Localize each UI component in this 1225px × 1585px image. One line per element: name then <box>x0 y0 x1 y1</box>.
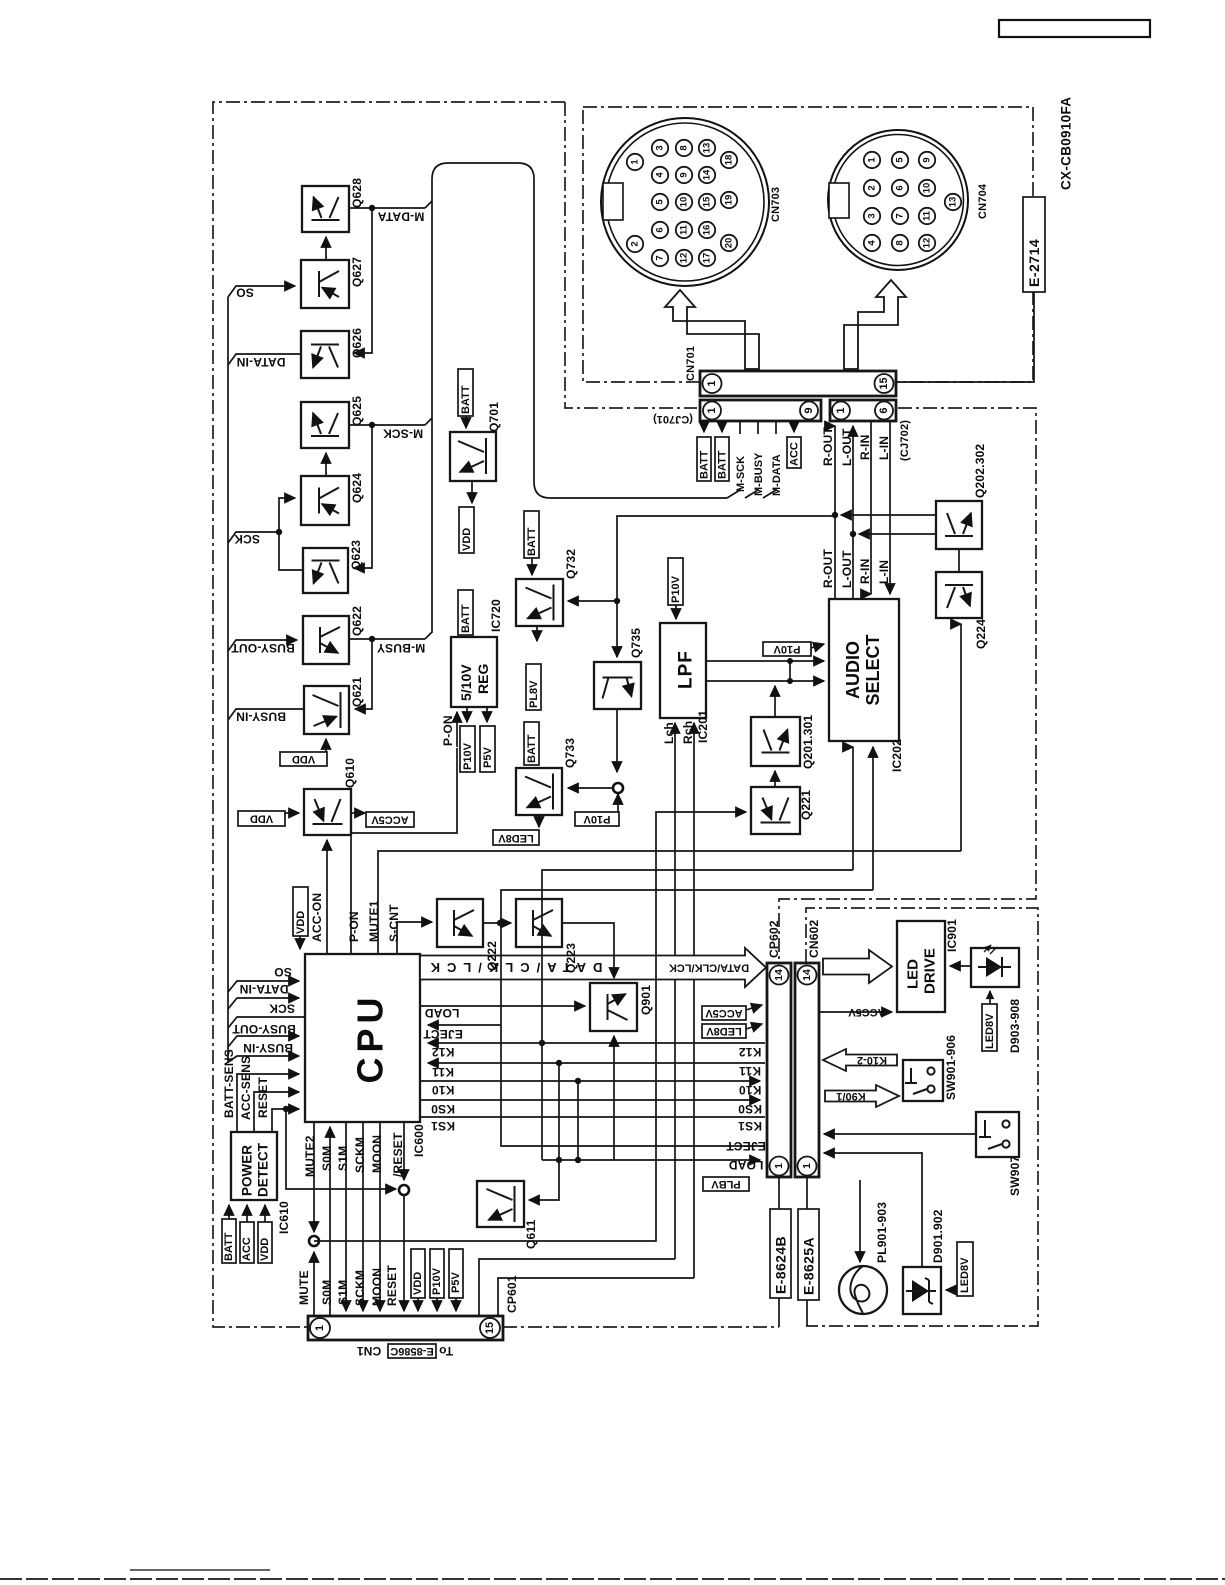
wire S-CNT CPU to Q222 <box>397 922 432 954</box>
wire MUTE1 CPU riser to Q224 line <box>378 851 961 954</box>
svg-text:PL8V: PL8V <box>528 680 540 708</box>
wire D901 up to CN602 <box>824 1153 922 1267</box>
wire node to P10V label <box>617 794 619 800</box>
wire MUTE2 from CPU bottom <box>313 1122 315 1232</box>
svg-text:15: 15 <box>878 377 890 389</box>
svg-text:LED8V: LED8V <box>706 1025 742 1037</box>
switch SW907 <box>976 1112 1019 1157</box>
svg-text:BUSY-OUT: BUSY-OUT <box>232 1022 296 1036</box>
svg-text:KS0: KS0 <box>738 1102 762 1116</box>
svg-text:SCK: SCK <box>269 1002 295 1016</box>
svg-text:LOAD: LOAD <box>728 1158 763 1172</box>
svg-text:CPU: CPU <box>350 992 391 1083</box>
wire LOAD CPU to Q901 <box>420 1005 585 1007</box>
transistor Q610 <box>304 789 351 835</box>
svg-text:Q221: Q221 <box>799 790 813 820</box>
svg-text:E-2714: E-2714 <box>1026 239 1042 287</box>
svg-text:CN703: CN703 <box>770 187 782 222</box>
svg-text:K90/1: K90/1 <box>836 1090 865 1102</box>
svg-text:/RESET: /RESET <box>391 1132 405 1177</box>
wire Q202 to R-OUT line <box>841 514 936 516</box>
wire LPF out upper to AUDIO SELECT <box>706 660 824 662</box>
wire BATT to Q732 <box>531 558 533 575</box>
wire LED8V to D901 <box>946 1289 957 1291</box>
net label BATT <box>715 437 729 481</box>
wire S0M from CPU <box>329 1127 331 1316</box>
svg-text:5/10V: 5/10V <box>458 664 474 701</box>
transistor Q733 <box>516 768 562 815</box>
diode D903-908 <box>971 945 1019 987</box>
svg-text:4: 4 <box>655 172 666 178</box>
svg-text:P-ON: P-ON <box>347 911 361 942</box>
node /RESET circle <box>399 1185 409 1195</box>
transistor Q625 <box>301 402 349 448</box>
wire RESET into CPU <box>272 1109 299 1132</box>
net label LED8V boxed at CP602 <box>702 1024 746 1038</box>
transistor Q628 <box>302 186 349 232</box>
svg-text:SELECT: SELECT <box>863 634 883 705</box>
wire SCK to Q624 <box>279 498 295 532</box>
svg-text:EJECT: EJECT <box>726 1139 766 1153</box>
net label BATT boxed above Q733 <box>524 722 539 765</box>
wire BATT to REG <box>465 634 467 636</box>
wire BUSY-IN to Q621 <box>228 709 304 720</box>
svg-text:SW907: SW907 <box>1008 1156 1022 1196</box>
switch SW901-906 <box>903 1060 943 1101</box>
svg-text:DATA-IN: DATA-IN <box>237 355 286 369</box>
transistor Q221 <box>751 787 800 834</box>
svg-text:PL901-903: PL901-903 <box>875 1202 889 1263</box>
net label ACC5V boxed at CP602 <box>702 1006 746 1020</box>
svg-text:MUTE2: MUTE2 <box>303 1135 317 1177</box>
connection box E-2714 <box>1023 197 1045 292</box>
svg-text:15: 15 <box>484 1322 496 1334</box>
wire Lch into LPF <box>674 723 676 1259</box>
wire AUDIO SELECT bottom pin2 <box>872 747 874 890</box>
svg-text:R-IN: R-IN <box>858 435 872 460</box>
wire SCK from bus <box>228 532 279 543</box>
transistor Q222 <box>437 899 483 947</box>
svg-text:M-DATA: M-DATA <box>771 454 783 496</box>
net label VDD boxed bottom <box>411 1249 425 1298</box>
svg-text:1: 1 <box>773 1163 785 1169</box>
svg-text:Q622: Q622 <box>350 606 364 636</box>
net label BATT boxed <box>222 1219 236 1263</box>
wire Q901 bottom to LOAD row <box>613 1036 615 1160</box>
svg-text:S0M: S0M <box>320 1280 334 1305</box>
svg-text:K12: K12 <box>432 1045 455 1059</box>
svg-text:1: 1 <box>706 407 718 413</box>
wire Q201 to LPF lower line <box>774 686 776 717</box>
hollow arrow CN701 to CN703 <box>665 290 759 369</box>
empty title box top right <box>999 20 1150 37</box>
svg-text:BUSY-IN: BUSY-IN <box>243 1041 293 1055</box>
wire SO to Q627 <box>228 286 295 297</box>
svg-text:L-IN: L-IN <box>877 560 891 584</box>
svg-text:CX-CB0910FA: CX-CB0910FA <box>1059 97 1074 190</box>
wire Q223 to Q901 <box>562 923 614 978</box>
net label BATT boxed above Q732 <box>524 511 539 558</box>
svg-text:R-OUT: R-OUT <box>821 549 835 588</box>
svg-text:Q701: Q701 <box>487 402 501 432</box>
svg-text:D903-908: D903-908 <box>1008 999 1022 1053</box>
net label BATT boxed above REG <box>458 590 473 635</box>
wire ACC-ON CPU to Q610 <box>326 840 328 954</box>
svg-text:ACC5V: ACC5V <box>371 814 409 826</box>
svg-text:Q732: Q732 <box>564 549 578 579</box>
net label VDD boxed <box>258 1222 272 1263</box>
svg-text:IC901: IC901 <box>945 919 959 952</box>
net label VDD boxed left of Q610 <box>238 811 285 826</box>
wire M-BUSY to Q621 input <box>355 639 372 709</box>
net label P10V boxed at AUDIO SELECT <box>763 642 811 656</box>
wire /RESET from CPU <box>403 1122 405 1180</box>
svg-text:ACC-ON: ACC-ON <box>310 893 324 942</box>
svg-text:Q624: Q624 <box>350 473 364 503</box>
transistor Q622 <box>303 616 349 664</box>
wire M-BUSY from Q622 <box>349 638 425 640</box>
net label P10V boxed above LPF <box>668 558 683 605</box>
svg-text:D901.902: D901.902 <box>931 1209 945 1263</box>
net label VDD boxed below Q701 <box>459 507 474 553</box>
wire EJECT row <box>428 1024 501 1026</box>
CJ701 stub wire pin ACC <box>793 421 795 432</box>
transistor Q611 <box>477 1181 524 1227</box>
CJ701 stub M-SCK <box>739 421 741 434</box>
svg-text:E-8624B: E-8624B <box>773 1236 789 1294</box>
wire L2 AUDIO pin1 to K12 drop <box>542 870 853 1043</box>
svg-text:RESET: RESET <box>385 1265 399 1306</box>
wire CP602 pin1 to E-8624B <box>778 1176 780 1209</box>
wire RESET to /RESET node <box>286 1109 396 1189</box>
wire SCKM from CPU <box>362 1122 364 1311</box>
transistor Q223 <box>516 899 562 947</box>
svg-text:10: 10 <box>922 183 933 194</box>
svg-text:K12: K12 <box>739 1045 762 1059</box>
connector CP602 <box>767 963 791 1177</box>
svg-text:10: 10 <box>679 197 690 208</box>
left signal bus vertical <box>227 297 229 1062</box>
svg-text:S1M: S1M <box>336 1280 350 1305</box>
wire E-2714 to CN701 <box>897 292 1034 382</box>
wire node to Q733 <box>568 787 612 789</box>
wire R-IN from CJ702 <box>870 421 872 594</box>
svg-text:Q611: Q611 <box>524 1219 538 1249</box>
hollow arrow CN701 to CN704 <box>844 280 906 369</box>
node P10V connection circle <box>613 783 623 793</box>
wire MUTE net circle to Q221 <box>314 812 746 1241</box>
wire MOON from CPU <box>379 1122 381 1311</box>
svg-text:SCKM: SCKM <box>353 1270 367 1306</box>
wire Rch into LPF <box>693 723 695 1278</box>
svg-text:CN704: CN704 <box>977 183 989 219</box>
transistor Q624 <box>301 476 349 525</box>
wire BATT to Q701 <box>465 416 467 428</box>
svg-text:9: 9 <box>922 157 933 162</box>
svg-text:SW901-906: SW901-906 <box>944 1035 958 1100</box>
wire LOAD row to CP602 <box>542 1159 760 1161</box>
wire M-SCK to Q623 input <box>354 425 372 568</box>
svg-text:20: 20 <box>724 238 735 249</box>
signal bus channel M-DATA/M-SCK/M-BUSY riser <box>425 201 432 208</box>
svg-text:11: 11 <box>922 210 933 221</box>
svg-text:IC610: IC610 <box>277 1201 291 1234</box>
wire BATT-SENS into CPU <box>237 1074 299 1132</box>
wire SCK into CPU <box>228 1017 305 1028</box>
connector area dash-dot border <box>583 107 1033 382</box>
wire P5V to CP601 <box>455 1298 457 1311</box>
svg-text:KS1: KS1 <box>738 1119 762 1133</box>
svg-text:REG: REG <box>475 664 491 694</box>
svg-text:ACC: ACC <box>789 442 801 466</box>
svg-text:POWER: POWER <box>240 1145 255 1196</box>
svg-text:RESET: RESET <box>256 1077 270 1118</box>
wire KS0 row <box>420 1099 760 1101</box>
svg-text:ACC: ACC <box>241 1237 253 1261</box>
svg-text:L-IN: L-IN <box>877 436 891 460</box>
svg-text:LED8V: LED8V <box>984 1013 996 1049</box>
wire L3 AUDIO pin2 to EJECT drop <box>501 890 873 923</box>
wire Q202 to Q224 <box>958 549 960 572</box>
bus arrow DATA/CLK/LCK CPU to CP602 <box>420 948 766 987</box>
wire K10 net drop <box>577 1081 579 1160</box>
svg-text:17: 17 <box>702 253 713 264</box>
power detector IC610 POWER DETECT <box>231 1132 277 1200</box>
svg-text:Lch: Lch <box>662 722 676 744</box>
svg-text:16: 16 <box>702 225 713 236</box>
svg-text:LED8V: LED8V <box>959 1257 971 1293</box>
svg-text:1: 1 <box>867 157 878 163</box>
filter IC201 LPF <box>660 623 706 718</box>
svg-text:K11: K11 <box>432 1065 454 1079</box>
svg-text:LPF: LPF <box>676 650 697 689</box>
hollow arrow K10-2 <box>823 1049 897 1071</box>
svg-text:12: 12 <box>922 238 933 249</box>
wire SW907 to CN602 <box>824 1133 976 1135</box>
svg-text:BATT: BATT <box>717 450 729 479</box>
svg-text:CP602: CP602 <box>767 920 781 958</box>
svg-text:R-IN: R-IN <box>858 559 872 584</box>
wire LED8V into CP602 <box>746 1024 762 1029</box>
wire K10 row <box>420 1080 760 1082</box>
page footer rules <box>130 1569 270 1571</box>
wire /RESET circle to CP601 <box>403 1195 405 1311</box>
transistor Q626 <box>301 331 349 378</box>
svg-text:VDD: VDD <box>259 1238 271 1261</box>
svg-text:SCK: SCK <box>234 532 260 546</box>
svg-text:Q735: Q735 <box>629 628 643 658</box>
svg-text:Q628: Q628 <box>350 178 364 208</box>
svg-text:KS0: KS0 <box>431 1102 455 1116</box>
svg-text:2: 2 <box>867 185 878 190</box>
wire P-ON CPU riser <box>351 748 457 954</box>
wire DATA-IN to Q626 <box>228 354 301 365</box>
node M-DATA junction <box>369 205 375 211</box>
connector CN704 <box>828 130 968 270</box>
wire VDD to POWER DETECT <box>264 1205 266 1222</box>
svg-text:1: 1 <box>630 159 641 165</box>
svg-text:CN1: CN1 <box>357 1344 382 1358</box>
svg-text:LOAD: LOAD <box>424 1006 459 1020</box>
svg-text:KS1: KS1 <box>431 1119 455 1133</box>
svg-text:1: 1 <box>314 1325 326 1331</box>
svg-text:S0M: S0M <box>320 1146 334 1171</box>
wire ACC5V CN602 to LED DRIVE <box>819 1011 892 1013</box>
svg-text:LED8V: LED8V <box>498 832 534 844</box>
wire Q735 to P10V node <box>616 709 618 772</box>
svg-text:P5V: P5V <box>482 747 494 768</box>
svg-text:Q202.302: Q202.302 <box>973 444 987 498</box>
svg-text:DATA/CLK/LCK: DATA/CLK/LCK <box>669 962 749 974</box>
svg-text:IC202: IC202 <box>890 739 904 772</box>
svg-text:M-DATA: M-DATA <box>378 210 425 224</box>
transistor Q732 <box>516 579 563 626</box>
wire Q221 to Q201 <box>774 771 776 787</box>
svg-text:11: 11 <box>679 224 690 235</box>
wire Q610 to ACC5V <box>351 812 365 814</box>
CJ701 stub M-DATA <box>775 421 777 434</box>
connector bar CJ701 <box>700 400 821 421</box>
svg-text:Q627: Q627 <box>350 257 364 287</box>
svg-text:BUSY-IN: BUSY-IN <box>236 710 286 724</box>
svg-text:Q224: Q224 <box>974 619 988 649</box>
transistor Q201.301 <box>751 717 800 766</box>
wire Q202 to L-OUT line <box>859 533 936 535</box>
connector bar CJ702 <box>830 400 896 421</box>
svg-text:18: 18 <box>724 155 735 166</box>
svg-text:S1M: S1M <box>336 1146 350 1171</box>
CN704 pins <box>864 152 961 251</box>
CN703 pins <box>627 140 737 266</box>
wire LPF out lower to AUDIO SELECT <box>706 680 824 682</box>
wire P10V net riser to Q732 and Q735 <box>617 516 835 601</box>
wire E-8624B to border <box>778 1298 780 1327</box>
wire M-SCK from Q625 <box>349 424 425 426</box>
wire P10V to LPF <box>675 605 677 619</box>
svg-text:K10: K10 <box>739 1083 762 1097</box>
wire Lch return to CP601 <box>479 1259 675 1316</box>
transistor Q735 <box>594 662 641 709</box>
svg-text:P10V: P10V <box>431 1267 443 1295</box>
svg-text:SO: SO <box>274 965 292 979</box>
CJ701 stub wire pin BATT2 <box>721 421 723 432</box>
wire BUSY-IN into CPU <box>228 1056 299 1062</box>
svg-text:P10V: P10V <box>773 643 801 655</box>
wire R-OUT CJ702 riser <box>834 426 836 599</box>
node MUTE junction circle <box>309 1236 319 1246</box>
bus entry diagonal M-BUSY <box>425 632 432 639</box>
svg-text:1: 1 <box>835 407 847 413</box>
svg-text:VDD: VDD <box>250 813 273 825</box>
wire CN602 pin1 to E-8625A <box>806 1176 808 1209</box>
wire KS1 row <box>420 1116 765 1118</box>
svg-text:Q201.301: Q201.301 <box>801 715 815 769</box>
connector CN602 <box>795 963 819 1177</box>
svg-text:BATT: BATT <box>460 604 472 633</box>
svg-text:SCKM: SCKM <box>353 1137 367 1173</box>
connector CP601 <box>308 1316 503 1340</box>
svg-text:E-8586C: E-8586C <box>390 1345 433 1357</box>
net label LED8V boxed <box>493 830 539 845</box>
wire K11 drop to Q611 <box>529 1160 559 1200</box>
CJ701 stub M-BUSY <box>757 421 759 434</box>
svg-text:BATT: BATT <box>223 1232 235 1261</box>
svg-text:8: 8 <box>895 240 906 245</box>
wire BATT to POWER DETECT <box>228 1205 230 1219</box>
svg-text:VDD: VDD <box>412 1272 424 1295</box>
connector CN703 <box>601 118 769 286</box>
connector bar CN701 <box>700 371 896 396</box>
transistor Q627 <box>301 260 349 308</box>
svg-text:Q610: Q610 <box>343 758 357 788</box>
wire DATA-IN into CPU <box>228 998 299 1009</box>
svg-text:K10: K10 <box>432 1083 455 1097</box>
node M-BUSY junction <box>369 636 375 642</box>
svg-text:Q223: Q223 <box>564 943 578 973</box>
svg-text:14: 14 <box>702 169 713 180</box>
wire Q222 to Q223 <box>483 922 511 924</box>
wire EJECT to CP602 <box>501 923 765 1146</box>
net label P10V boxed under node <box>575 812 619 826</box>
svg-text:M-BUSY: M-BUSY <box>753 452 765 496</box>
wire ACC to POWER DETECT <box>246 1205 248 1222</box>
svg-text:CN701: CN701 <box>685 346 697 381</box>
svg-text:L-OUT: L-OUT <box>840 550 854 588</box>
net label BATT boxed above Q701 <box>458 369 473 416</box>
wire REG to P5V <box>486 707 488 722</box>
wire VDD into CPU top <box>299 936 301 949</box>
svg-text:E-8625A: E-8625A <box>801 1237 817 1295</box>
svg-text:L-OUT: L-OUT <box>840 428 854 466</box>
net label LED8V boxed vertical <box>982 1004 997 1051</box>
net label VDD boxed above CPU <box>293 887 308 936</box>
svg-text:(CJ701): (CJ701) <box>653 413 693 425</box>
node RESET junction <box>283 1106 289 1112</box>
svg-text:LED: LED <box>905 959 922 989</box>
svg-text:VDD: VDD <box>295 911 307 934</box>
net label P5V boxed <box>480 726 495 772</box>
svg-text:Q733: Q733 <box>563 738 577 768</box>
wire K11 row <box>428 1062 765 1064</box>
svg-text:BATT: BATT <box>526 527 538 556</box>
net label LED8V boxed vertical right <box>957 1242 973 1296</box>
svg-text:Q222: Q222 <box>485 941 499 971</box>
svg-text:1: 1 <box>801 1163 813 1169</box>
svg-text:5: 5 <box>655 199 666 205</box>
microcontroller IC600 CPU <box>305 954 420 1122</box>
wire D903 to LED DRIVE <box>950 965 971 967</box>
wire AUDIO SELECT bottom pin1 <box>852 747 854 870</box>
wire Q701 to VDD <box>471 481 473 503</box>
svg-text:SO: SO <box>236 286 254 300</box>
svg-text:15: 15 <box>702 196 713 207</box>
transistor Q621 <box>304 686 349 734</box>
wire VDD to Q621 bottom <box>325 739 327 752</box>
svg-text:MOON: MOON <box>370 1268 384 1306</box>
svg-text:P10V: P10V <box>583 813 611 825</box>
hollow arrow CN602 to LED DRIVE <box>823 950 892 983</box>
wire Q627 to Q628 <box>325 237 327 260</box>
svg-text:8: 8 <box>679 145 690 150</box>
bus entry diagonal M-SCK <box>425 418 432 425</box>
svg-text:9: 9 <box>803 407 815 413</box>
CJ701 stub wire pin BATT <box>703 421 705 432</box>
hollow arrow K90/1 <box>825 1085 899 1107</box>
net label P5V boxed bottom <box>449 1249 463 1298</box>
wire Q624 to Q625 <box>325 453 327 476</box>
wire MUTE circle to CP601 <box>313 1252 315 1260</box>
bus exit diagonals to CJ701 stubs <box>727 488 740 498</box>
